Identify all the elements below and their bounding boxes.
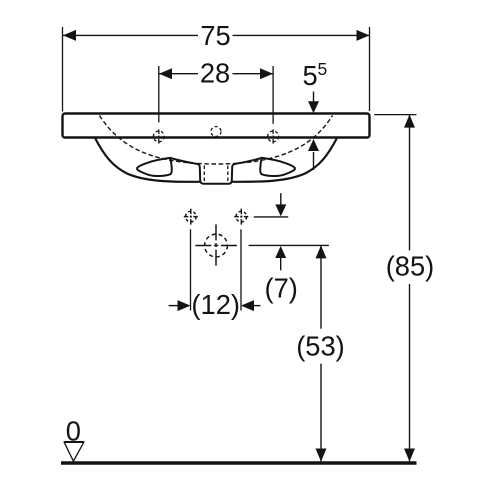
svg-text:(7): (7) [265,273,298,304]
svg-text:5: 5 [303,60,318,91]
svg-text:75: 75 [200,20,230,51]
svg-text:(85): (85) [386,251,435,282]
svg-text:5: 5 [318,59,328,79]
svg-text:(12): (12) [191,289,240,320]
svg-text:28: 28 [200,57,230,88]
svg-text:(53): (53) [296,331,345,362]
